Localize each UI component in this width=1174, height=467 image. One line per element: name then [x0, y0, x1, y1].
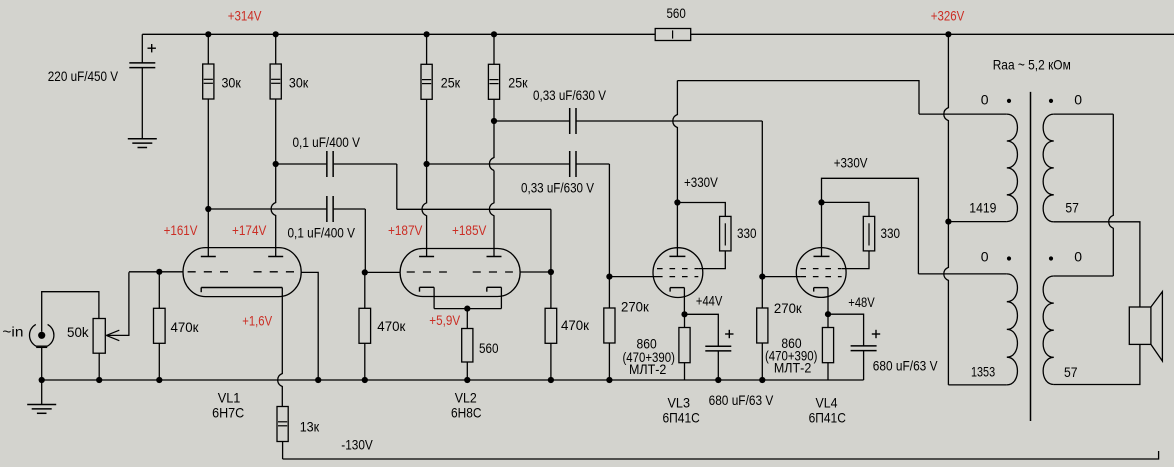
wire VL1 cathode lead (jogs over ground rail) [278, 288, 283, 407]
wire VL2 cathode bus [434, 308, 501, 310]
value label 860 (R15) [781, 335, 801, 351]
value label 0,33 uF/630 V (C2) [533, 87, 607, 103]
node grid1-R5 [156, 269, 162, 275]
capacitor C3 0,33uF/630V [570, 151, 576, 177]
designator VL3 [668, 395, 691, 411]
wire VL2 anode1 lead (jogs over net-A) [422, 164, 427, 257]
node VL2-anode2 / C2 take-off [491, 118, 497, 124]
svg-text:0: 0 [981, 91, 989, 107]
svg-text:470к: 470к [171, 319, 200, 335]
capacitor C4 0,1uF/400V [327, 151, 333, 177]
svg-text:VL1: VL1 [218, 389, 241, 405]
resistor R5 470к [154, 272, 166, 380]
wire VL2 grid2 exit [520, 271, 551, 273]
svg-text:+5,9V: +5,9V [429, 312, 460, 328]
type label 6Н8С [451, 405, 482, 421]
wire feed to primary-1 top [919, 113, 1007, 115]
resistor R11 270к [604, 277, 615, 380]
wire net-A to corner [334, 163, 397, 165]
voltage label +330V (VL4) [834, 154, 868, 170]
net label +326V [931, 8, 965, 24]
wire VL3 grid entry [609, 276, 657, 278]
VL2 anode1 plate [419, 256, 434, 258]
value label 0,33 uF/630 V (C3) [521, 180, 595, 196]
tube VL4 envelope [796, 248, 846, 298]
wire net-A horizontal run [397, 208, 551, 210]
svg-text:+187V: +187V [388, 222, 423, 238]
node rail-R4 [491, 31, 497, 37]
designator VL2 [455, 389, 477, 405]
wire net-A drop to VL2 grid2 [550, 209, 552, 272]
wire secondary-1 bottom to speaker [1054, 222, 1140, 307]
resistor R3 25к [421, 34, 432, 164]
wire VL3 anode feed top [677, 81, 919, 115]
svg-text:0: 0 [1074, 249, 1082, 265]
wire ground rail [42, 379, 864, 381]
value label 25к (R4) [508, 74, 528, 90]
node rail-R14 [759, 377, 765, 383]
wire +326V rail right segment [691, 33, 949, 35]
VL2 cathode 1 [420, 287, 435, 308]
node VL2 grid2 [548, 269, 554, 275]
svg-text:+161V: +161V [164, 222, 198, 238]
wire net-C right [577, 120, 763, 122]
node VL4 anode/screen [818, 199, 824, 205]
value label 470к (R5) [171, 319, 200, 335]
svg-text:+44V: +44V [696, 292, 723, 308]
VL1 grid 2 (dashed) [254, 271, 295, 273]
value label 0,1 uF/400 V (C4) [293, 134, 361, 150]
value label 470к (R8) [561, 317, 590, 333]
capacitor C7 680uF/63V [828, 314, 880, 380]
wire VL2 anode2 lead (jogs over net-B and net-A) [489, 121, 494, 257]
svg-text:30к: 30к [289, 74, 309, 90]
type label 6П41С (VL4) [809, 409, 846, 425]
value label (470+390) (R12) [623, 349, 675, 365]
resistor R8 470к [545, 272, 557, 380]
svg-text:680 uF/63 V: 680 uF/63 V [873, 358, 938, 374]
svg-text:330: 330 [881, 225, 901, 241]
VL4 anode lead and plate [814, 202, 830, 256]
svg-text:57: 57 [1064, 364, 1078, 380]
value label 860 (R12) [637, 336, 657, 352]
svg-text:+330V: +330V [684, 174, 718, 190]
resistor R7 470к [359, 272, 371, 380]
svg-text:470к: 470к [561, 317, 590, 333]
svg-text:1353: 1353 [971, 363, 995, 379]
voltage label +330V (VL3) [684, 174, 718, 190]
svg-text:+48V: +48V [848, 294, 875, 310]
transformer T1 primary winding 1 (1419) [1007, 114, 1018, 222]
wire VL1 anode2 lead (jogs over net-D) [271, 164, 276, 257]
wire net-B left [427, 163, 570, 165]
wire net-C left [494, 120, 569, 122]
svg-text:270к: 270к [621, 299, 650, 315]
wire secondary-1 top [1054, 113, 1114, 115]
value label 330 (R10) [737, 225, 757, 241]
node rail-R1 [205, 31, 211, 37]
ground symbol (input) [27, 380, 56, 413]
resistor R4 25к [488, 34, 499, 121]
svg-text:220 uF/450 V: 220 uF/450 V [48, 68, 119, 84]
value label 220 uF/450 V [48, 68, 119, 84]
label 0 (primary-1) [981, 91, 989, 107]
svg-text:680 uF/63 V: 680 uF/63 V [709, 392, 774, 408]
node rail-jack [39, 377, 45, 383]
value label 680 uF/63 V (C6) [709, 392, 774, 408]
polarity dot secondary-1 [1049, 99, 1053, 103]
wire secondary series link (jogs over sec-1 bottom) [1054, 114, 1114, 276]
polarity dot secondary-2 [1049, 256, 1053, 260]
wire wiper to VL1 grid [129, 271, 183, 273]
VL1 grid 1 (dashed) [188, 271, 228, 273]
svg-text:+314V: +314V [228, 8, 262, 24]
svg-text:270к: 270к [774, 300, 803, 316]
wire VL4 anode feed top [822, 178, 919, 274]
svg-text:25к: 25к [441, 74, 461, 90]
polarity dot primary-1 [1007, 99, 1011, 103]
voltage label +5,9V [429, 312, 460, 328]
node VL4 grid [759, 274, 765, 280]
svg-text:+185V: +185V [452, 222, 487, 238]
wire net-B drop to VL3 grid [608, 164, 610, 277]
net label +314V [228, 8, 262, 24]
node rail-R11 [606, 377, 612, 383]
wire net-D drop to VL2 grid1 [364, 209, 366, 272]
value label 30к (R2) [289, 74, 309, 90]
wire net-A left [276, 163, 327, 165]
label 0 (primary-2) [981, 249, 989, 265]
svg-text:6П41С: 6П41С [663, 409, 700, 425]
svg-text:560: 560 [479, 340, 499, 356]
node rail-VL1 grid2 [315, 377, 321, 383]
value label 50k [67, 324, 90, 340]
svg-text:330: 330 [737, 225, 757, 241]
wire VL4 grid entry [762, 276, 800, 278]
svg-text:-130V: -130V [341, 437, 373, 453]
resistor R17 560 (B+ dropper) [655, 29, 691, 41]
label 0 (secondary-2) [1074, 249, 1082, 265]
polarity dot primary-2 [1007, 256, 1011, 260]
wire +314V rail left segment [142, 33, 655, 35]
value label 560 (R9) [479, 340, 499, 356]
resistor R9 560 [462, 309, 473, 380]
svg-text:560: 560 [667, 5, 686, 21]
value label (470+390) (R15) [765, 348, 817, 364]
voltage label +161V [164, 222, 198, 238]
VL3 anode lead and plate [669, 203, 685, 257]
node VL3 cathode [681, 311, 687, 317]
wire VL1 grid2 to ground [301, 272, 318, 380]
svg-text:+1,6V: +1,6V [242, 313, 272, 329]
node VL4 cathode [825, 311, 831, 317]
svg-text:VL4: VL4 [816, 395, 838, 411]
wire VL2 grid1 entry [365, 271, 400, 273]
svg-text:МЛТ-2: МЛТ-2 [774, 360, 812, 376]
wire primary-1 bottom [948, 221, 1006, 223]
voltage label +48V [848, 294, 875, 310]
wire +326V rail to edge [948, 33, 1174, 35]
svg-text:VL3: VL3 [668, 395, 691, 411]
tube VL1 envelope [183, 248, 301, 297]
value label 270к (R11) [621, 299, 650, 315]
node VL1-anode2 / C4 take-off [273, 161, 279, 167]
svg-text:0,1 uF/400 V: 0,1 uF/400 V [293, 134, 361, 150]
node primary center [945, 219, 951, 225]
voltage label +44V [696, 292, 723, 308]
svg-text:VL2: VL2 [455, 389, 477, 405]
wire B+ drop (jogs over primary wires) [944, 34, 949, 221]
tube VL2 envelope [400, 249, 520, 297]
svg-text:50k: 50k [67, 324, 90, 340]
node rail-R3 [424, 31, 430, 37]
svg-text:57: 57 [1065, 199, 1079, 215]
capacitor C5 0,1uF/400V [327, 196, 333, 222]
svg-text:0,33 uF/630 V: 0,33 uF/630 V [521, 180, 595, 196]
node rail-R7 [362, 377, 368, 383]
value label 13к (R6) [300, 419, 320, 435]
value label 470к (R7) [377, 318, 406, 334]
node rail-R5 [156, 377, 162, 383]
resistor R13 330 (screen stopper) [822, 202, 875, 268]
VL2 anode2 plate [487, 256, 502, 258]
resistor R12 860 (470+390) МЛТ-2 [679, 314, 690, 380]
svg-text:0,33 uF/630 V: 0,33 uF/630 V [533, 87, 607, 103]
VL4 screen grid (dashed) [800, 268, 841, 270]
svg-text:6П41С: 6П41С [809, 409, 846, 425]
resistor R6 13к [277, 407, 288, 460]
VL1 anode1 lead and plate [201, 209, 216, 257]
svg-text:0: 0 [981, 249, 989, 265]
VL3 control grid (dashed) [657, 276, 698, 278]
node rail-B+ tap [945, 31, 951, 37]
svg-text:13к: 13к [300, 419, 320, 435]
svg-text:МЛТ-2: МЛТ-2 [629, 361, 667, 377]
value label 680 uF/63 V (C7) [873, 358, 938, 374]
svg-text:Raa ~ 5,2 кОм: Raa ~ 5,2 кОм [993, 57, 1071, 73]
transformer T1 primary winding 2 (1353) [1007, 274, 1018, 385]
label ~in [2, 323, 23, 339]
wire net-D left [208, 208, 326, 210]
label Raa ~ 5,2 кОм [993, 57, 1071, 73]
label 57 turns (sec-1) [1065, 199, 1079, 215]
capacitor C2 0,33uF/630V [570, 108, 576, 134]
VL2 grid 2 (dashed) [473, 271, 513, 273]
svg-text:+326V: +326V [931, 8, 965, 24]
VL4 cathode [814, 288, 828, 315]
label 57 turns (sec-2) [1064, 364, 1078, 380]
wire secondary-2 bottom to speaker [1054, 344, 1140, 384]
svg-text:6Н8С: 6Н8С [451, 405, 482, 421]
node VL2 grid1 [362, 269, 368, 275]
svg-text:25к: 25к [508, 74, 528, 90]
resistor R1 30к [203, 34, 214, 209]
svg-text:~in: ~in [2, 323, 23, 339]
transformer T1 secondary winding 1 (57) [1043, 114, 1054, 222]
node rail-R9 [464, 377, 470, 383]
potentiometer R16 50k [93, 272, 129, 380]
resistor R10 330 (screen stopper) [677, 203, 731, 269]
resistor R2 30к [270, 34, 281, 164]
VL1 anode2 plate [268, 256, 283, 258]
resistor R14 270к [757, 277, 768, 380]
capacitor C1 220uF/450V [129, 34, 156, 138]
VL1 cathode [201, 288, 282, 293]
value label МЛТ-2 (R12) [629, 361, 667, 377]
svg-text:0,1 uF/400 V: 0,1 uF/400 V [288, 225, 356, 241]
node rail-R8 [548, 377, 554, 383]
node rail-pot [96, 377, 102, 383]
value label 30к (R1) [222, 74, 242, 90]
type label 6Н7С [212, 405, 244, 421]
voltage label +185V [452, 222, 487, 238]
svg-text:0: 0 [1074, 91, 1082, 107]
resistor R15 860 (470+390) МЛТ-2 [822, 314, 833, 380]
label 1353 turns [971, 363, 995, 379]
wire B+ drop lower [944, 222, 1007, 385]
ground below C1 [128, 139, 157, 148]
wire net-D to corner [334, 208, 366, 210]
wire net-C drop to VL4 grid [761, 121, 763, 277]
wire feed to primary-2 top [918, 273, 1006, 275]
wire VL3 anode line (jogs over net-C) [673, 81, 678, 203]
svg-text:1419: 1419 [969, 199, 996, 215]
speaker BA1 [1129, 292, 1162, 361]
node rail-R2 [273, 31, 279, 37]
node VL3 anode/screen [674, 199, 680, 205]
VL3 cathode [670, 288, 684, 315]
node rail-C6 [715, 377, 721, 383]
node VL1-anode1 / C5 take-off [205, 206, 211, 212]
connector XS1 input jack [29, 324, 53, 347]
label 0 (secondary-1) [1074, 91, 1082, 107]
svg-text:30к: 30к [222, 74, 242, 90]
value label 330 (R13) [881, 225, 901, 241]
value label МЛТ-2 (R15) [774, 360, 812, 376]
VL4 control grid (dashed) [800, 276, 841, 278]
value label 25к (R3) [441, 74, 461, 90]
voltage label +1,6V [242, 313, 272, 329]
svg-text:470к: 470к [377, 318, 406, 334]
wire jack shield to rail [41, 347, 43, 380]
svg-text:+330V: +330V [834, 154, 868, 170]
VL2 grid 1 (dashed) [407, 271, 447, 273]
voltage label +187V [388, 222, 423, 238]
wire jack pin to pot top [42, 292, 99, 332]
transformer T1 secondary winding 2 (57) [1043, 276, 1054, 385]
node VL2 cathode junction [464, 306, 470, 312]
value label 560 (R17) [667, 5, 686, 21]
value label 270к (R14) [774, 300, 803, 316]
svg-text:6Н7С: 6Н7С [212, 405, 244, 421]
wire net-A vertical [396, 164, 398, 209]
designator VL1 [218, 389, 241, 405]
VL3 screen grid (dashed) [657, 268, 698, 270]
transformer T1 core [1030, 92, 1032, 421]
voltage label +174V [232, 222, 267, 238]
tube VL3 envelope [653, 248, 703, 298]
node VL3 grid [606, 274, 612, 280]
net label -130V [341, 437, 373, 453]
wire net-B right [577, 163, 610, 165]
label 1419 turns [969, 199, 996, 215]
capacitor C6 680uF/63V [685, 314, 734, 380]
value label 0,1 uF/400 V (C5) [288, 225, 356, 241]
VL2 cathode 2 [487, 287, 502, 308]
designator VL4 [816, 395, 838, 411]
wire net -130V [283, 451, 1159, 459]
node VL2-anode1 / C3 take-off [424, 161, 430, 167]
type label 6П41С (VL3) [663, 409, 700, 425]
svg-text:+174V: +174V [232, 222, 267, 238]
